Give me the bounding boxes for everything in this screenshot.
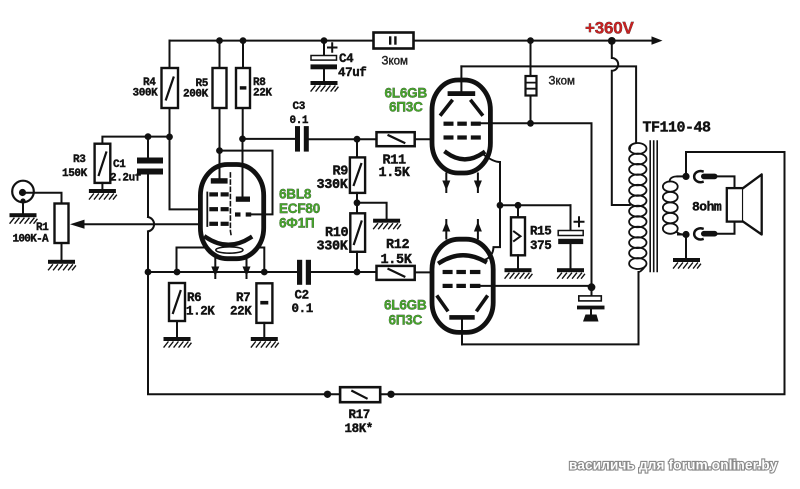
- wire jack to R1 top: [27, 193, 62, 204]
- tube V1 6L6GB upper envelope: [432, 80, 490, 173]
- ground jack: [10, 213, 38, 223]
- label 6P3S (V1): [389, 100, 423, 115]
- node R4 bottom: [166, 134, 173, 141]
- V1 beam plates: [441, 101, 482, 114]
- label 6BL8: [279, 187, 312, 202]
- wire secondary bottom stub: [678, 234, 686, 236]
- label 22K: [253, 88, 272, 100]
- label 1.5K (R12): [381, 253, 413, 268]
- V1 control grid dashes: [444, 135, 481, 139]
- wire secondary bottom to ground: [685, 235, 687, 259]
- ground R6: [164, 337, 192, 347]
- svg-text:375: 375: [530, 239, 551, 253]
- ground secondary: [673, 258, 701, 268]
- label 330K (R9): [317, 178, 349, 193]
- node R17 left: [324, 391, 331, 398]
- node B+/R8: [240, 37, 247, 44]
- svg-text:6П3С: 6П3С: [389, 313, 423, 328]
- node B+/R5: [216, 37, 223, 44]
- label R3: [73, 154, 86, 166]
- V2 heater arrow right: [474, 220, 482, 239]
- resistor R5: [213, 41, 227, 151]
- wire V2 plate to transformer bottom: [462, 272, 639, 344]
- V2 control grid dashes: [443, 270, 481, 274]
- svg-text:R15: R15: [530, 225, 551, 239]
- label R6: [187, 291, 201, 305]
- tube V2 6L6GB lower envelope: [432, 239, 493, 332]
- svg-text:6П3С: 6П3С: [389, 100, 423, 115]
- node B+/screen feed: [527, 37, 534, 44]
- wire U1 triode cathode to R7: [259, 248, 265, 273]
- resistor R11: [357, 132, 444, 146]
- svg-text:R12: R12: [386, 238, 410, 253]
- node secondary top: [682, 173, 689, 180]
- label 0.1 (C3): [290, 115, 309, 127]
- wire V1 plate to transformer top: [461, 66, 636, 143]
- speaker: [727, 174, 762, 234]
- svg-text:47uf: 47uf: [338, 66, 366, 80]
- label 330K (R10): [317, 239, 349, 254]
- svg-text:1.2K: 1.2K: [186, 305, 215, 319]
- label 1.5K (R11): [379, 166, 411, 181]
- svg-text:300K: 300K: [133, 88, 159, 100]
- node cathodes join: [497, 202, 504, 209]
- label C4: [339, 52, 354, 66]
- U1 divider dashed line: [230, 173, 231, 238]
- wire +360V drop with hop to primary tap: [612, 41, 630, 205]
- node B+/transformer tap: [608, 37, 616, 45]
- U1 pentode grid dashes row1: [209, 192, 228, 196]
- svg-text:R17: R17: [349, 408, 370, 422]
- wire plug bottom to speaker: [718, 222, 735, 234]
- wire R5 plate node to triode grid (wrap): [220, 151, 273, 215]
- node R5 bottom: [216, 147, 223, 154]
- capacitor C2: [297, 260, 357, 285]
- resistor R6: [169, 283, 185, 337]
- U1 triode grid dashes: [235, 212, 251, 216]
- wire grid bias ground tap: [357, 203, 387, 219]
- label 150K: [62, 168, 88, 180]
- node C1 bottom: [145, 269, 152, 276]
- node C1 top: [145, 133, 152, 140]
- node screen bypass: [588, 283, 596, 291]
- node R15 top: [515, 202, 522, 209]
- ground R3: [89, 189, 117, 199]
- svg-text:C3: C3: [293, 101, 306, 113]
- ground C4: [311, 81, 339, 91]
- label R8: [253, 77, 266, 89]
- svg-text:1.5K: 1.5K: [379, 166, 411, 181]
- resistor R12: [357, 266, 444, 280]
- resistor R7: [256, 283, 272, 337]
- svg-text:василичь для forum.onliner.by: василичь для forum.onliner.by: [569, 458, 778, 473]
- label +360V: [585, 19, 634, 38]
- svg-text:6L6GB: 6L6GB: [384, 298, 427, 313]
- label R9: [333, 165, 349, 180]
- resistor R8: [236, 41, 250, 139]
- resistor R3: [95, 144, 111, 189]
- node C3/R9/R11: [354, 136, 361, 143]
- node R8 bottom: [239, 136, 246, 143]
- svg-text:6BL8: 6BL8: [279, 187, 312, 202]
- U1 heater arrow left: [211, 259, 219, 279]
- V2 cathode arc: [440, 255, 485, 262]
- svg-text:C2: C2: [295, 289, 309, 303]
- wire U1 pentode cathode to R6: [177, 248, 205, 269]
- U1 triode plate: [236, 139, 250, 202]
- svg-text:8ohm: 8ohm: [692, 200, 722, 215]
- resistor 3kom screen (vertical): [526, 41, 537, 124]
- label 3kom (top): [382, 56, 409, 68]
- wire upper cathode node rail: [500, 204, 571, 206]
- wire R1 wiper to pentode grid: [84, 223, 208, 225]
- wire secondary top stub: [678, 175, 687, 177]
- label 100K-A: [13, 234, 50, 246]
- node R7 top: [261, 269, 268, 276]
- potentiometer R1: [55, 204, 69, 260]
- wire R4 bottom node to R3/C1: [102, 108, 208, 209]
- node R9/R10/ground: [354, 199, 361, 206]
- V2 beam plates: [438, 297, 487, 310]
- svg-text:C4: C4: [339, 52, 354, 66]
- svg-text:R1: R1: [36, 222, 49, 234]
- label R4: [143, 77, 156, 89]
- wire plug top to speaker: [718, 176, 735, 188]
- label C3: [293, 101, 306, 113]
- svg-text:ECF80: ECF80: [279, 201, 320, 216]
- U1 pentode grid rail: [206, 193, 208, 227]
- svg-text:200K: 200K: [183, 89, 209, 101]
- svg-text:0.1: 0.1: [292, 302, 313, 316]
- resistor R17: [328, 387, 392, 402]
- transformer TF110-48 primary winding: [629, 143, 646, 272]
- arrow R1 wiper: [70, 220, 85, 229]
- svg-text:150K: 150K: [62, 168, 88, 180]
- label 18K*: [345, 422, 373, 436]
- label C2: [295, 289, 309, 303]
- svg-text:6L6GB: 6L6GB: [385, 86, 428, 101]
- resistor R10: [350, 203, 365, 272]
- V2 cathode lead: [485, 205, 501, 260]
- V1 cathode arc: [446, 153, 483, 160]
- V1 plate: [448, 66, 476, 96]
- transformer secondary winding: [663, 176, 686, 234]
- V2 screen grid dashes: [443, 284, 481, 288]
- label 22K (R7): [230, 305, 252, 319]
- label 6P3S (V2): [389, 313, 423, 328]
- svg-text:C1: C1: [113, 159, 126, 171]
- svg-text:22K: 22K: [253, 88, 272, 100]
- connector plug top: [694, 171, 717, 182]
- svg-text:18K*: 18K*: [345, 422, 373, 436]
- watermark: [569, 458, 778, 473]
- svg-text:22K: 22K: [230, 305, 252, 319]
- wire C1 bottom vertical with hop over grid wire: [148, 217, 154, 272]
- label 1.2K: [186, 305, 215, 319]
- U1 cathode arc: [206, 237, 250, 244]
- svg-text:+360V: +360V: [585, 19, 634, 38]
- V1 cathode lead: [484, 155, 501, 206]
- label TF110-48: [643, 120, 712, 137]
- V2 plate: [449, 315, 474, 344]
- resistor R9: [350, 139, 365, 203]
- wire R8 to C3: [243, 138, 296, 140]
- U1 base ellipse: [216, 247, 243, 253]
- svg-text:R7: R7: [236, 291, 250, 305]
- svg-text:100K-A: 100K-A: [13, 234, 50, 246]
- arrow B+ rail right end: [652, 36, 663, 44]
- svg-text:0.1: 0.1: [290, 115, 309, 127]
- svg-text:330K: 330K: [317, 178, 349, 193]
- capacitor screen bypass: [577, 287, 605, 314]
- label 375: [530, 239, 551, 253]
- svg-text:Зком: Зком: [382, 56, 409, 68]
- capacitor cathode bypass: [558, 205, 583, 268]
- node C2/R10/R12: [354, 269, 361, 276]
- svg-text:330K: 330K: [317, 239, 349, 254]
- ground R7: [251, 337, 279, 347]
- label 3kom (screen): [549, 76, 576, 88]
- node screen/3kom: [527, 120, 534, 127]
- resistor 3kom series (horizontal): [374, 33, 414, 49]
- ground R1: [48, 260, 76, 270]
- svg-text:R3: R3: [73, 154, 86, 166]
- wire feedback loop (secondary top to R17 to cathode): [391, 152, 785, 394]
- capacitor C4: [311, 41, 338, 81]
- ground cathode bypass cap: [557, 268, 585, 278]
- connector plug bottom: [694, 228, 717, 239]
- ground R15: [505, 268, 533, 278]
- wire B+ top rail: [170, 40, 656, 42]
- V2 heater arrow left: [442, 220, 450, 239]
- label R1: [36, 222, 49, 234]
- label 300K: [133, 88, 159, 100]
- label 0.1 (C2): [292, 302, 313, 316]
- label 8ohm: [692, 200, 722, 215]
- label C1: [113, 159, 126, 171]
- svg-text:R6: R6: [187, 291, 201, 305]
- label R12: [386, 238, 410, 253]
- capacitor C3: [295, 126, 357, 152]
- U1 pentode grid dashes row2: [209, 207, 228, 211]
- V1 heater arrow right: [474, 174, 482, 193]
- resistor R15: [511, 205, 525, 268]
- label 2.2uf: [110, 173, 142, 185]
- ground R9/R10 tap: [373, 219, 401, 229]
- U1 pentode grid dashes row3: [209, 222, 228, 226]
- wire bottom left feedback to C1 node: [148, 272, 328, 394]
- label 47uf: [338, 66, 366, 80]
- svg-text:2.2uf: 2.2uf: [110, 173, 142, 185]
- input jack J1: [12, 181, 34, 214]
- U1 heater arrow right: [243, 259, 251, 279]
- capacitor C1: [137, 137, 163, 217]
- label R15: [530, 225, 551, 239]
- node R6 top: [174, 269, 181, 276]
- label 6L6GB (V1): [385, 86, 428, 101]
- label R7: [236, 291, 250, 305]
- V1 heater arrow left: [442, 174, 450, 193]
- tube U1 6BL8 envelope: [200, 165, 263, 259]
- transformer core: [650, 141, 657, 272]
- svg-text:1.5K: 1.5K: [381, 253, 413, 268]
- svg-text:Зком: Зком: [549, 76, 576, 88]
- label 200K: [183, 89, 209, 101]
- node B+/C4: [321, 37, 328, 44]
- wire cathode rail (C1/R6/R7/C2): [148, 271, 297, 273]
- wire V2 screen to bypass node: [480, 285, 591, 287]
- node R17 right: [387, 391, 394, 398]
- svg-text:6Ф1П: 6Ф1П: [279, 215, 314, 230]
- label 6F1P: [279, 215, 314, 230]
- chassis ground screen cap: [583, 315, 599, 322]
- label R5: [196, 78, 209, 90]
- label R10: [325, 226, 349, 241]
- label R11: [383, 154, 407, 169]
- node secondary bottom: [682, 231, 689, 238]
- resistor R4: [162, 41, 179, 108]
- wire V1 screen to bypass node: [481, 123, 592, 287]
- V1 screen grid dashes: [444, 122, 481, 126]
- label R17: [349, 408, 370, 422]
- label 6L6GB (V2): [384, 298, 427, 313]
- label ECF80: [279, 201, 320, 216]
- U1 pentode plate: [211, 151, 228, 184]
- svg-text:TF110-48: TF110-48: [643, 120, 712, 137]
